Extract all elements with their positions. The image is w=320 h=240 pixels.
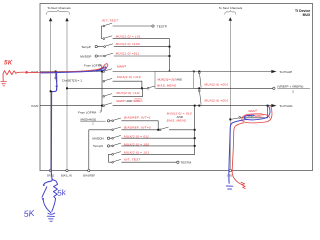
terminal TESTM [177,161,179,163]
wire: row L to nbus-low [121,137,194,139]
junction nbus lower / PGAN [198,105,200,107]
junction SRB1-switch riser / PGAN [267,105,269,107]
svg-text:From LOFFM: From LOFFM [78,111,97,115]
terminal TempP [95,45,97,47]
wire: row M to nbus-low [121,145,194,147]
switch MUX=101 lower [112,154,114,156]
terminal BIAS_IN (bottom edge) [66,169,68,171]
wire: row K to J junction [121,129,157,131]
terminal MVDDN [107,137,109,139]
wire: bus2 vertical [169,39,171,72]
annotation: red end scribble arrow [241,182,245,189]
brace under To Next Channels (left) [47,10,70,14]
switch INT_TEST on TESTP row [102,25,103,27]
arrowhead up on BIAS_IN vertical [65,18,68,22]
wire: row F then drop to BIAS rail [113,81,142,88]
wire: INxN lead-in [40,105,102,107]
annotation: blue ground symbol (hand) [47,213,55,221]
svg-text:To Next Channels: To Next Channels [47,6,71,10]
svg-text:BIAS_MEAS: BIAS_MEAS [167,119,187,123]
terminal (VREFP+VREFN)/2 [273,87,275,89]
node: ChxSET tap on INxP wire [55,71,57,73]
switch MUX=001 upper (vertical) [198,72,200,74]
wire: to-next-channels line 1 (SRB2 vertical) [50,21,52,171]
wire: to-next-channels line (SRB1 vertical) [229,20,231,170]
svg-text:To PGAN: To PGAN [279,104,292,108]
annotation: red wire highlight along INxP to LOFFP node with loop [17,64,107,73]
svg-text:MUX[2:0] =100: MUX[2:0] =100 [116,42,140,46]
svg-text:MUX: MUX [303,13,311,17]
svg-text:5k: 5k [57,188,68,198]
wire: to-next-channels line 2 (BIAS_IN vertical) [66,21,68,171]
svg-text:TESTM: TESTM [180,161,191,165]
svg-text:To Next Channels: To Next Channels [219,6,243,10]
svg-text:INxP: INxP [31,70,38,74]
junction nbus-low / PGAN [194,105,196,107]
svg-text:To PGAP: To PGAP [279,70,292,74]
wire: TESTP row [113,25,152,27]
annotation: red node blob on INxP wire [25,71,28,74]
svg-text:INT_TEST: INT_TEST [102,18,120,22]
junction row L / nbus-low [194,137,196,139]
terminal TempN [107,145,109,147]
svg-text:BIASREF: BIASREF [83,174,95,178]
annotation: blue path down ChxSET branch to SRB2 [51,73,56,171]
junction rows F,H on BIAS rail [141,87,143,89]
junction row M / nbus-low [194,145,196,147]
svg-text:MVDDN: MVDDN [92,137,103,141]
wire: LOFFP connector to node [100,65,103,71]
wire: row J then drop to row K [121,121,158,130]
svg-text:(AVDD+AVSS): (AVDD+AVSS) [80,117,96,121]
switch MUX=001 lower (vertical) [198,90,200,92]
junction ChxSET branch / SRB2 vertical [50,90,52,92]
svg-text:MAIN(1) AND SRB1(1): MAIN(1) AND SRB1(1) [116,99,143,103]
switch BIAS_MEAS upper [147,87,149,89]
svg-text:MUX[2:0] =011: MUX[2:0] =011 [116,51,140,55]
wire: VREF mid rail [199,87,272,89]
switch BIAS_MEAS lower [159,129,161,131]
svg-text:INxN: INxN [31,104,38,108]
wire: row D to bus2 [114,55,170,57]
wire: row C to bus2 [114,46,170,48]
annotation: blue wire left branch to merge [43,200,51,213]
terminal (AVDD+AVSS)/2 [107,120,109,122]
label box: MUX[2:0]=010 AND BIAS_MEAS [155,72,194,89]
svg-text:MUX[2:0] = 101: MUX[2:0] = 101 [116,34,141,38]
annotation: blue highlight PGAN-SRB1 path and loop around label [244,106,270,120]
svg-text:BIAS_IN: BIAS_IN [61,174,72,178]
annotation: blue hand switch arm (left branch) [42,187,47,197]
svg-text:5K: 5K [23,208,36,219]
wire: PGAP row to arrow [113,71,272,73]
switch BIASREF_INT=1 [110,120,112,122]
terminal BIASREF (bottom edge) [88,169,90,171]
junction bus2 top of nbus / PGAP [198,71,200,73]
junction bus2 / PGAP row [169,71,171,73]
svg-text:From LOFFP: From LOFFP [84,63,102,67]
junction row C / bus2 [169,46,171,48]
annotation: red loop around MAIN AND SRB1 label [242,106,272,122]
wire: row O to TESTM terminal [121,161,176,163]
arrowhead To PGAP [271,70,276,73]
switch MUX=011 lower [110,137,112,139]
switch ChxSET[3]=1 (vertical) [55,72,57,77]
svg-text:BIAS_MEAS: BIAS_MEAS [157,83,176,87]
wire: row H rise to BIAS rail [113,89,143,97]
junction rows J/K [157,129,159,131]
svg-text:TempP: TempP [81,45,91,49]
wire: left bus rows E..I [101,72,103,106]
svg-text:MUX[2:0] =001: MUX[2:0] =001 [204,82,228,86]
terminal SRB1 (bottom edge) [229,169,231,171]
annotation: red resistor to ground at INxP [3,70,17,80]
terminal MVDDP [95,55,97,57]
junction label-box right edge / PGAP [193,71,195,73]
annotation: blue highlight INxP to ChxSET branch and LOFFP swirl [41,67,107,73]
wire: left bus rows A-B [101,26,103,39]
annotation: red descent along SRB1 to bottom with curl [232,123,243,185]
svg-text:BIASREF_INT=1: BIASREF_INT=1 [124,116,151,120]
svg-text:MUX[2:0] =001: MUX[2:0] =001 [204,98,228,102]
annotation: blue hand resistor 5k (right branch) [52,180,58,212]
svg-text:MUX[2:0] = 010 AND: MUX[2:0] = 010 AND [157,77,182,81]
node: INxP junction [101,71,103,73]
brace under To Next Channels (right) [225,10,236,14]
wire: row N to nbus-low corner [121,146,194,155]
outer box: TI device MUX boundary [40,4,313,171]
node: INxN junction [101,105,103,107]
svg-text:(VREFP + VREFN): (VREFP + VREFN) [277,85,303,89]
wire: PGAN row to arrow [113,105,272,107]
svg-text:TempN: TempN [93,144,103,148]
switch MUX=110 [103,80,105,82]
arrowhead To PGAN [271,104,276,107]
wire: PGAN drop to SRB1 switch [241,106,268,118]
junction row D / bus2 [169,55,171,57]
svg-text:MUX[2:0] =111: MUX[2:0] =111 [116,91,140,95]
annotation: blue path below SRB2 pin with branch node [44,170,52,183]
wire: lower-left bus rows N-O [107,154,109,162]
svg-text:TESTP: TESTP [157,24,167,28]
svg-text:BIASREF_INT=0: BIASREF_INT=0 [124,126,151,130]
switch MUX=111 [103,96,105,98]
svg-text:2: 2 [292,89,294,93]
junction row K / nbus-low [194,129,196,131]
wire: LOFFM connector to node [101,106,104,111]
wire: nbus-low vertical [194,106,196,146]
switch MUX=011 [97,55,103,57]
arrowhead up on SRB2 vertical [49,18,52,22]
switch MAIN AND SRB1 on PGAN row [103,105,105,107]
switch MUX=101 [103,38,105,40]
terminal SRB2 (bottom edge) [49,169,51,171]
junction nbus / VREF mid rail [198,87,200,89]
terminal TESTP [152,25,154,27]
wire: INxP lead-in [40,71,102,73]
wire: ChxSET branch jog to SRB2 vertical [51,87,57,91]
switch MUX=100 lower [110,145,112,147]
svg-text:SRB2: SRB2 [47,174,55,178]
annotation: red ground symbol [1,81,7,86]
annotation: blue descent along SRB1 to bottom [229,120,246,184]
wire: row K to nbus-low [169,129,195,131]
wire: BIAS rail under label box to nbus [157,87,199,89]
wire: row B to bus2 [113,38,170,40]
switch MUX=100 [97,46,103,48]
wire: BIASREF rail from v3 corner [89,130,112,171]
svg-text:ChxSET[3] = 1: ChxSET[3] = 1 [62,78,82,82]
annotation: blue ground mark at SRB1 bottom [226,186,232,189]
svg-text:MVDDP: MVDDP [80,54,91,58]
svg-text:INT_TEST: INT_TEST [124,158,142,162]
wire: BIAS rail from BIAS_IN [67,87,147,89]
switch INT_TEST lower [112,161,114,163]
svg-text:5K: 5K [4,60,13,67]
switch MAIN on PGAP row [103,71,105,73]
svg-text:MUX[2:0] = 101: MUX[2:0] = 101 [124,150,149,154]
switch MAIN AND SRB1 to SRB1 line [239,117,241,119]
svg-text:MUX[2:0] =110: MUX[2:0] =110 [117,75,141,79]
junction SRB1 vertical / switch [229,118,231,120]
arrowhead up on SRB1 vertical [229,17,232,21]
switch BIASREF_INT=0 [112,129,114,131]
junction BIAS_IN vertical / BIAS rail [66,87,68,89]
